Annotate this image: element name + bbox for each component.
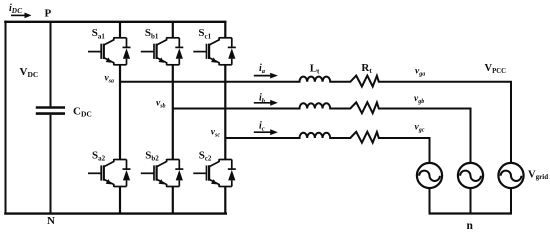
svg-text:P: P xyxy=(45,8,52,20)
svg-text:n: n xyxy=(467,220,474,232)
svg-text:N: N xyxy=(47,215,55,227)
